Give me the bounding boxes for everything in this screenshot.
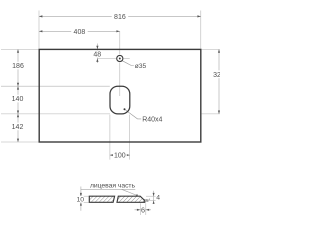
svg-text:лицевая часть: лицевая часть: [90, 183, 135, 190]
leader lines: [122, 61, 141, 119]
svg-text:4: 4: [156, 194, 160, 201]
100 inside: [110, 154, 113, 156]
48 outside: [96, 46, 98, 49]
section bar piece 2 with chamfer: [117, 196, 145, 202]
408: [39, 30, 42, 32]
6 arrows outside: [137, 209, 140, 211]
svg-text:816: 816: [114, 14, 126, 21]
left chain: [17, 49, 19, 52]
svg-text:186: 186: [12, 63, 24, 70]
10 arrows outside: [80, 193, 82, 196]
label shelf + leaders: [81, 189, 138, 195]
leader arrows: [80, 194, 82, 196]
main rectangle (top view): [39, 49, 201, 142]
svg-text:6: 6: [141, 206, 145, 215]
sink cutout: [110, 86, 130, 114]
svg-text:140: 140: [12, 96, 24, 103]
svg-text:408: 408: [74, 29, 86, 36]
section bar piece 1: [89, 196, 114, 202]
svg-text:142: 142: [12, 124, 24, 131]
svg-text:326: 326: [213, 72, 220, 79]
extension lines top view: [1, 11, 220, 160]
section texts: [77, 194, 161, 214]
svg-text:10: 10: [77, 197, 85, 204]
faucet hole: [117, 55, 123, 61]
svg-text:45°: 45°: [143, 198, 150, 203]
right 326: [218, 49, 220, 52]
816: [39, 15, 42, 17]
dimension lines: [18, 16, 219, 155]
arrows: [17, 15, 220, 156]
svg-text:100: 100: [114, 153, 126, 160]
R40 dot: [124, 108, 126, 110]
section extension lines: [80, 196, 156, 215]
dim texts (white backing to break lines): [11, 12, 225, 159]
svg-text:ø35: ø35: [135, 63, 147, 70]
svg-text:48: 48: [93, 52, 101, 59]
4 arrows outside: [153, 193, 155, 196]
svg-text:R40x4: R40x4: [142, 116, 162, 123]
